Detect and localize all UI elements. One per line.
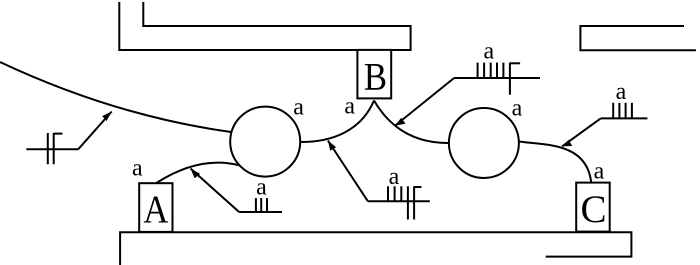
arrow from far-left gate to curve 1 [78, 112, 111, 150]
svg-text:a: a [344, 94, 355, 120]
svg-text:a: a [512, 96, 523, 122]
svg-text:a: a [483, 39, 494, 65]
svg-text:a: a [594, 159, 605, 185]
svg-text:a: a [132, 155, 143, 181]
box A [139, 183, 172, 232]
node left circle [230, 107, 300, 177]
svg-text:C: C [580, 188, 606, 231]
svg-text:B: B [364, 55, 387, 98]
comb symbol near A (3 ticks) [239, 198, 282, 212]
comb symbol right (4 ticks) [601, 103, 648, 119]
arrow from right comb to curve 5 [562, 118, 601, 146]
comb+gate symbol top-center (5 ticks + 1 tall + serif) [454, 63, 540, 95]
svg-text:a: a [256, 174, 267, 200]
top-left track channel [119, 2, 410, 50]
wire curve 1 (top-left long curve to left circle) [0, 62, 231, 132]
wire curve 4 (cusp under B to right circle) [374, 101, 449, 144]
arrow from top-center comb to curve 4 [395, 78, 454, 126]
node right circle [449, 108, 519, 178]
svg-text:a: a [389, 164, 400, 190]
wire curve 5 (right circle to box C) [519, 142, 591, 183]
wire curve 2 (from box A to left circle) [156, 163, 240, 183]
arrow from center comb to curve 3 [328, 141, 368, 202]
svg-text:A: A [143, 187, 168, 230]
top-right track bracket [580, 26, 696, 50]
bottom track channel [120, 232, 631, 265]
box C [576, 183, 610, 232]
box B [357, 50, 391, 99]
gate symbol far-left [26, 133, 78, 164]
wire curve 3 (left circle to cusp under B) [300, 101, 374, 143]
arrow from near-A comb to curve 2 [191, 169, 240, 213]
comb+gate symbol center (3 ticks + 2 tall + serif) [368, 186, 430, 219]
svg-text:a: a [293, 95, 304, 121]
svg-text:a: a [616, 79, 627, 105]
